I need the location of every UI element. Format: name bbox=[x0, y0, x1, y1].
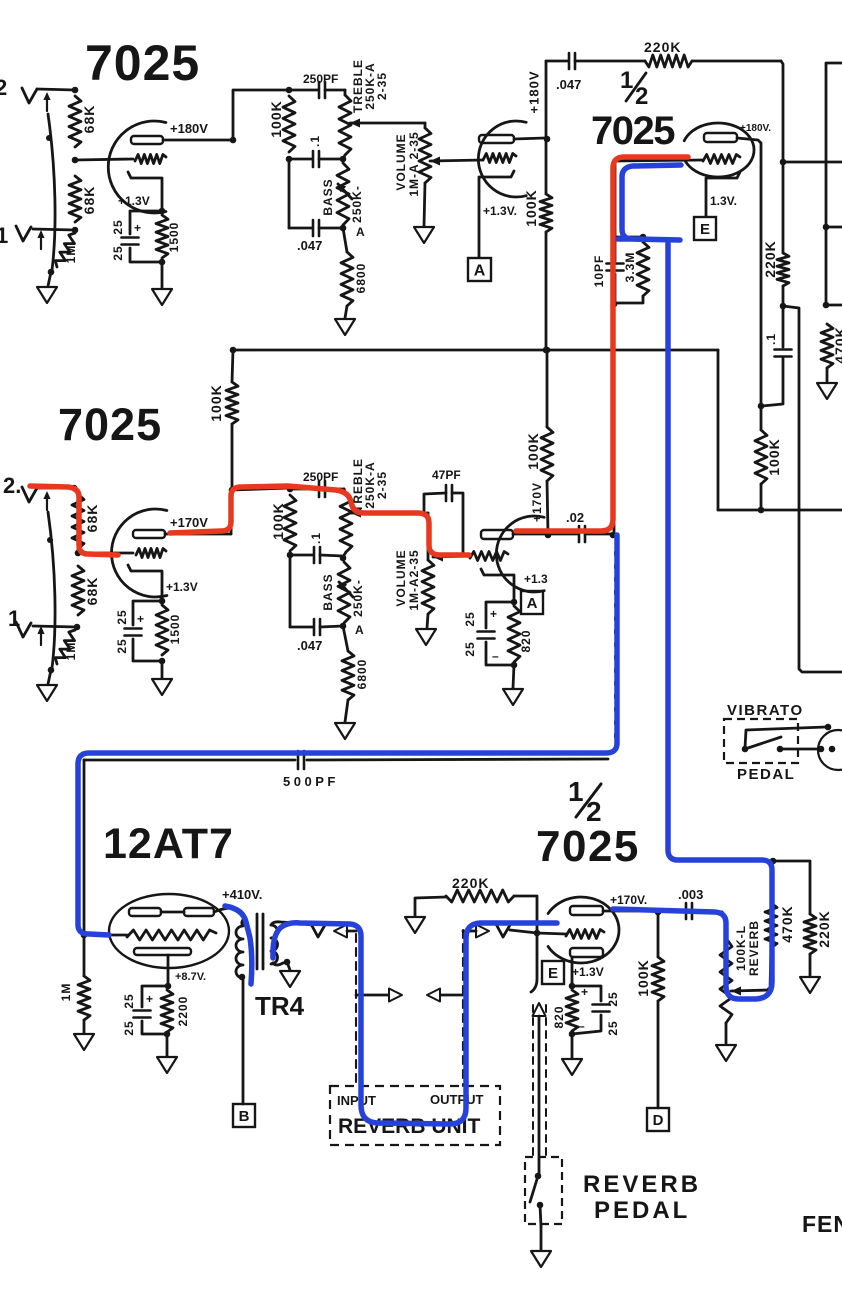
svg-text:.003: .003 bbox=[678, 887, 703, 902]
svg-text:+410V.: +410V. bbox=[222, 887, 262, 902]
ground (ch2 cathode) bbox=[152, 679, 172, 695]
resistor 68K lower (ch1) bbox=[69, 176, 97, 222]
tube V1b cathode bbox=[479, 171, 514, 257]
node ch1 grid junction bbox=[72, 157, 79, 164]
svg-text:FEN: FEN bbox=[802, 1211, 842, 1237]
wire stack feed (ch2) bbox=[232, 488, 289, 490]
wire B+ rail bbox=[233, 349, 718, 352]
terminal A box (ch1b) bbox=[468, 258, 491, 281]
wire mix out right bbox=[783, 161, 842, 164]
label input 1 bbox=[0, 223, 8, 248]
terminal B box bbox=[233, 1104, 255, 1127]
node vibrato jack top bbox=[825, 724, 832, 731]
shield arrow left bbox=[356, 989, 402, 1002]
label TR4 bbox=[255, 991, 305, 1021]
svg-text:68K: 68K bbox=[84, 577, 100, 606]
capacitor .047 (ch1) bbox=[289, 220, 341, 253]
wire stack left drop (ch2) bbox=[289, 555, 292, 627]
svg-text:820: 820 bbox=[552, 1005, 566, 1028]
svg-text:B: B bbox=[239, 1108, 250, 1125]
node ch2 stack top bbox=[287, 486, 294, 493]
label 7025 (vibrato) bbox=[591, 109, 675, 153]
wire B+ vertical (ch1b) bbox=[545, 61, 548, 194]
input jack J2 (ch1) bbox=[22, 88, 51, 111]
ground (mix load) bbox=[800, 977, 820, 993]
svg-text:25: 25 bbox=[122, 1020, 136, 1035]
blue path (reverb drive) bbox=[78, 535, 617, 935]
tube V5 cathode bbox=[570, 948, 603, 957]
transformer TR4 core bbox=[257, 914, 263, 969]
node ch2 cathode bbox=[159, 598, 166, 605]
svg-text:7025: 7025 bbox=[536, 822, 640, 871]
svg-text:220K: 220K bbox=[644, 39, 681, 55]
svg-text:+: + bbox=[581, 985, 588, 999]
input jack J1 (ch1) bbox=[16, 226, 45, 249]
ground (reverb pedal) bbox=[531, 1251, 551, 1267]
svg-text:100K: 100K bbox=[766, 438, 782, 475]
svg-text:100K: 100K bbox=[523, 189, 539, 226]
label 100K-L REVERB bbox=[734, 920, 761, 976]
reverb pedal dashed box bbox=[525, 1157, 562, 1224]
node .02 output bbox=[610, 532, 617, 539]
resistor 1M (ch1) bbox=[55, 233, 78, 267]
wire 12AT7 grid bbox=[84, 934, 127, 937]
jack circle (vibrato) bbox=[818, 730, 842, 770]
capacitor 250PF (ch1 treble) bbox=[289, 72, 345, 98]
tube V3b envelope bbox=[496, 516, 544, 592]
capacitor 250PF (ch2 treble) bbox=[290, 470, 344, 497]
wire ch2 plate riser bbox=[231, 424, 232, 534]
label VIBRATO bbox=[727, 702, 804, 719]
svg-text:+: + bbox=[146, 992, 153, 1006]
ground (ch1 input) bbox=[37, 287, 57, 303]
capacitor 25/25 (ch2 cathode) bbox=[115, 601, 162, 661]
label TREBLE pot (ch2) bbox=[351, 458, 389, 512]
label +1.3V. (ch1b) bbox=[483, 204, 517, 218]
wire cathode ground (ch2) bbox=[161, 661, 164, 678]
cable core (reverb pedal) bbox=[533, 1003, 546, 1176]
svg-text:250PF: 250PF bbox=[303, 470, 338, 484]
svg-text:1500: 1500 bbox=[167, 222, 181, 253]
svg-text:A: A bbox=[356, 225, 365, 239]
wire 500PF bus bbox=[84, 759, 608, 760]
reverb unit dashed box bbox=[330, 1086, 500, 1145]
svg-text:7025: 7025 bbox=[85, 35, 200, 91]
resistor 220K (vibrato mix) bbox=[644, 39, 781, 67]
wire ch2b cathode ground bbox=[513, 665, 514, 688]
wire plate to tone feed (ch1) bbox=[233, 90, 288, 140]
svg-text:820: 820 bbox=[519, 629, 533, 652]
svg-text:D: D bbox=[653, 1112, 664, 1129]
blue path (TR4 primary) bbox=[225, 906, 252, 984]
node ch2 cathode bottom bbox=[159, 658, 166, 665]
node V5 plate bbox=[655, 909, 662, 916]
ground (12AT7 grid) bbox=[74, 1034, 94, 1050]
svg-text:1M: 1M bbox=[59, 983, 73, 1002]
switch contact vibrato bbox=[777, 746, 818, 753]
node ch2b cathode bbox=[511, 599, 518, 606]
wire jack2 to grid node bbox=[37, 89, 75, 90]
label VOLUME pot (ch1) bbox=[394, 131, 421, 196]
resistor 1500 (ch2 cathode) bbox=[156, 605, 182, 655]
node ch2b cathode bottom bbox=[511, 662, 518, 669]
label REVERB UNIT bbox=[338, 1115, 481, 1138]
svg-text:3.3M: 3.3M bbox=[623, 252, 637, 283]
wire V4 plate to TR4 bbox=[214, 908, 245, 918]
wire plate V1a bbox=[163, 139, 232, 142]
svg-text:PEDAL: PEDAL bbox=[594, 1197, 690, 1224]
svg-text:PEDAL: PEDAL bbox=[737, 766, 795, 783]
label +170V (ch2 plate) bbox=[170, 515, 208, 530]
svg-text:+170V: +170V bbox=[170, 515, 208, 530]
wire V5 cathode ground bbox=[571, 1034, 574, 1058]
node ch1b plate bbox=[544, 136, 551, 143]
svg-text:25: 25 bbox=[463, 611, 477, 626]
svg-text:250PF: 250PF bbox=[303, 72, 338, 86]
node on curve (ch2) bbox=[47, 537, 53, 543]
wire jack2 to node (ch2) bbox=[37, 487, 73, 490]
label +1.3 (ch2b) bbox=[524, 572, 548, 586]
wiper BASS (ch1) bbox=[337, 183, 352, 199]
node ch2 mid row left bbox=[287, 552, 294, 559]
svg-text:12AT7: 12AT7 bbox=[103, 820, 234, 868]
node lower bus left bbox=[758, 507, 765, 514]
tube V3a grid squiggle bbox=[136, 549, 166, 558]
red signal path (ch2 plate to grid2) bbox=[170, 486, 469, 555]
terminal A box (ch2b) bbox=[521, 591, 543, 614]
label +1.3V (ch1) bbox=[118, 194, 150, 208]
wire right edge out2 bbox=[826, 304, 842, 307]
tube V2b plate bbox=[704, 133, 737, 142]
resistor 6800 (ch1) bbox=[341, 228, 368, 318]
svg-text:2.: 2. bbox=[3, 473, 21, 498]
svg-text:68K: 68K bbox=[84, 504, 100, 533]
svg-text:+1.3V: +1.3V bbox=[166, 580, 198, 594]
wiper TREBLE (ch2) bbox=[351, 509, 428, 518]
wire TR4 to B bbox=[242, 977, 245, 1104]
label 1.3V. (vibrato) bbox=[710, 194, 737, 208]
node ch2 mid row right bbox=[340, 555, 347, 562]
svg-text:2200: 2200 bbox=[176, 996, 190, 1027]
svg-text:100K: 100K bbox=[208, 384, 224, 421]
tube V3a envelope bbox=[112, 509, 167, 597]
svg-text:.1: .1 bbox=[309, 532, 323, 544]
wire sleeve curve (ch1) bbox=[48, 114, 55, 270]
tube V4 grid squiggle bbox=[127, 930, 216, 940]
capacitor .003 bbox=[658, 887, 722, 919]
svg-text:–: – bbox=[578, 1019, 585, 1033]
wire plate V3b bbox=[513, 533, 547, 536]
svg-text:100K: 100K bbox=[635, 959, 651, 996]
ground (ch1 6800) bbox=[335, 319, 355, 335]
node rail at x547 bbox=[544, 347, 551, 354]
svg-text:100K: 100K bbox=[268, 100, 284, 137]
svg-text:220K: 220K bbox=[816, 910, 832, 947]
wiper TREBLE (ch1) bbox=[350, 119, 425, 128]
plug arrow (reverb in) bbox=[334, 925, 356, 938]
svg-text:OUTPUT: OUTPUT bbox=[430, 1092, 484, 1107]
vibrato pedal dashed box bbox=[724, 719, 798, 763]
svg-text:1.3V.: 1.3V. bbox=[710, 194, 737, 208]
tube V4 plate left bbox=[129, 908, 161, 916]
node ch1 cathode bbox=[159, 208, 166, 215]
node rail at x546 bbox=[543, 347, 550, 354]
wire plate V1b bbox=[514, 138, 545, 139]
capacitor .047 (ch2) bbox=[290, 619, 343, 653]
potentiometer VOLUME 1M-A (ch2) bbox=[422, 513, 434, 628]
potentiometer TREBLE 250K-A (ch2) bbox=[340, 489, 352, 557]
label +180V. (vibrato plate) bbox=[740, 123, 771, 134]
node ch1 jack2 bbox=[72, 87, 79, 94]
capacitor 10PF bbox=[592, 237, 624, 303]
cable dashed (reverb pedal) left bbox=[532, 1005, 534, 1157]
svg-text:.1: .1 bbox=[764, 333, 778, 345]
node TR4 primary bottom bbox=[239, 974, 246, 981]
tube V3b grid squiggle bbox=[470, 552, 508, 561]
label PEDAL (reverb) bbox=[594, 1197, 690, 1224]
capacitor .02 (coupling) bbox=[548, 510, 612, 542]
transformer TR4 primary bbox=[236, 918, 245, 978]
terminal E box (vibrato) bbox=[694, 217, 716, 240]
resistor 68K upper (ch2) bbox=[72, 494, 100, 549]
tube V5 plate bbox=[570, 906, 603, 915]
blue path (vibrato grid loop) bbox=[618, 165, 681, 240]
label input 2 bbox=[0, 75, 7, 100]
ground (ch2 volume) bbox=[416, 629, 436, 645]
label input 2 (ch2) bbox=[3, 473, 21, 498]
blue path (vibrato down to mix) bbox=[613, 240, 772, 999]
node ch1 input ground bbox=[48, 269, 55, 276]
svg-text:6800: 6800 bbox=[354, 263, 368, 294]
svg-text:BASS: BASS bbox=[321, 573, 335, 610]
svg-text:INPUT: INPUT bbox=[337, 1093, 376, 1108]
node 12AT7 grid bbox=[81, 932, 88, 939]
cable dashed (reverb pedal) right bbox=[545, 1005, 547, 1157]
transformer TR4 secondary bbox=[271, 925, 278, 964]
tube V4 12AT7 envelope bbox=[109, 894, 229, 968]
resistor 100K (ch1b plate load) bbox=[523, 189, 552, 232]
svg-text:25: 25 bbox=[606, 991, 620, 1006]
node ch2b plate bbox=[545, 532, 552, 539]
resistor 3.3M bbox=[614, 242, 649, 303]
svg-text:REVERB: REVERB bbox=[583, 1171, 701, 1198]
resistor 100K (ch2 slope) bbox=[270, 495, 296, 551]
wire cathode to ground (ch1) bbox=[161, 262, 164, 288]
capacitor 25/25 (ch1 cathode) bbox=[111, 211, 162, 262]
node ch1 plate bbox=[230, 137, 237, 144]
tube V1a 7025 envelope bbox=[108, 121, 166, 213]
potentiometer BASS 250K-A (ch2) bbox=[321, 562, 365, 637]
node right edge lower bbox=[823, 302, 830, 309]
capacitor 500PF bbox=[283, 751, 339, 789]
svg-text:100K-L: 100K-L bbox=[734, 925, 748, 971]
svg-text:VIBRATO: VIBRATO bbox=[727, 702, 804, 719]
node ch1 bass bottom bbox=[340, 225, 347, 232]
resistor 220K (right column) bbox=[762, 162, 789, 306]
svg-text:25: 25 bbox=[111, 219, 125, 234]
svg-text:100K: 100K bbox=[525, 432, 541, 469]
svg-text:6800: 6800 bbox=[355, 659, 369, 690]
node mix right bbox=[780, 159, 787, 166]
cable dashed right bbox=[462, 930, 464, 1086]
node rail at x233 bbox=[230, 347, 237, 354]
resistor 100K (right) bbox=[755, 406, 782, 510]
tube V1b grid squiggle bbox=[483, 154, 516, 163]
svg-text:2-35: 2-35 bbox=[375, 471, 389, 499]
svg-text:470K: 470K bbox=[832, 326, 842, 363]
label +8.7V. bbox=[175, 971, 206, 983]
wire grid (ch1) bbox=[75, 159, 133, 160]
label +170V. (recovery) bbox=[610, 893, 647, 907]
label OUTPUT bbox=[430, 1092, 484, 1107]
tube V5 envelope bbox=[548, 897, 619, 963]
tube V3a plate bbox=[133, 530, 165, 538]
tube V2b envelope bbox=[684, 123, 754, 177]
wiper VOLUME (ch2) bbox=[433, 553, 469, 562]
svg-text:47PF: 47PF bbox=[432, 468, 461, 482]
wire right edge out1 bbox=[826, 226, 842, 229]
wiper BASS (ch2) bbox=[338, 581, 353, 597]
ground (ch2 input) bbox=[37, 685, 57, 701]
resistor 6800 (ch2) bbox=[342, 626, 369, 722]
svg-text:E: E bbox=[700, 221, 710, 238]
svg-text:25: 25 bbox=[463, 641, 477, 656]
svg-text:68K: 68K bbox=[81, 186, 97, 215]
label +180V rotated bbox=[527, 71, 542, 114]
wire V4 cathode ground bbox=[166, 1034, 169, 1056]
svg-text:1: 1 bbox=[568, 776, 584, 807]
terminal E box (recovery) bbox=[542, 961, 564, 984]
wire jack to grid bbox=[510, 930, 537, 933]
tube V3b cathode bbox=[481, 569, 514, 601]
node mix wiper bbox=[767, 987, 774, 994]
svg-text:25: 25 bbox=[606, 1020, 620, 1035]
label FENDER (cut) bbox=[802, 1211, 842, 1237]
potentiometer VOLUME 1M-A (ch1) bbox=[419, 128, 431, 226]
capacitor 47PF (ch2 bright) bbox=[424, 468, 463, 553]
tube V4 cathode bbox=[134, 948, 191, 955]
svg-text:1M: 1M bbox=[64, 642, 78, 661]
resistor 1500 (ch1 cathode) bbox=[156, 215, 181, 258]
node recovery grid bbox=[534, 930, 541, 937]
svg-text:+: + bbox=[137, 612, 144, 626]
wire V4 cathode drop bbox=[167, 955, 170, 986]
svg-text:1M: 1M bbox=[64, 245, 78, 264]
capacitor .047 (vibrato coupling) bbox=[546, 53, 645, 92]
svg-text:470K: 470K bbox=[779, 905, 795, 942]
tube V1b 7025 envelope bbox=[478, 121, 526, 197]
svg-text:2: 2 bbox=[0, 75, 7, 100]
resistor 470K (vibrato mix) bbox=[765, 862, 795, 990]
ground (right edge) bbox=[817, 383, 837, 399]
node ch2 jack1 bbox=[74, 624, 81, 631]
label +170V (ch2b) bbox=[530, 482, 544, 522]
wire rail corner down bbox=[717, 350, 720, 510]
wire V5 cathode drop bbox=[571, 957, 574, 986]
capacitor 25/25 (ch2b cathode) bbox=[463, 602, 514, 665]
label TREBLE pot (ch1) bbox=[351, 59, 389, 113]
label 12AT7 bbox=[103, 820, 234, 868]
svg-text:.047: .047 bbox=[297, 238, 322, 253]
svg-text:+170V: +170V bbox=[530, 482, 544, 522]
capacitor .1 (ch2 bass) bbox=[290, 532, 343, 563]
svg-text:2: 2 bbox=[635, 83, 648, 110]
tube V4 plate right bbox=[184, 908, 214, 916]
wire secondary gnd bbox=[287, 962, 290, 970]
svg-text:+1.3V.: +1.3V. bbox=[483, 204, 517, 218]
svg-text:68K: 68K bbox=[81, 105, 97, 134]
svg-text:+: + bbox=[490, 607, 497, 621]
ground (reverb pot) bbox=[716, 1045, 736, 1061]
ground (V4 cathode) bbox=[157, 1057, 177, 1073]
svg-text:.02: .02 bbox=[566, 510, 584, 525]
svg-text:VOLUME: VOLUME bbox=[394, 549, 408, 606]
wire pedal ground bbox=[540, 1226, 543, 1250]
capacitor 25/25 (V4 cathode) bbox=[122, 986, 168, 1036]
tube V1b plate bbox=[479, 135, 514, 143]
node on curve (ch1) bbox=[46, 135, 52, 141]
svg-text:REVERB UNIT: REVERB UNIT bbox=[338, 1115, 481, 1138]
wire plate V3a bbox=[165, 533, 231, 536]
potentiometer BASS 250K-A (ch1) bbox=[321, 163, 365, 239]
tube V1a grid squiggle bbox=[135, 155, 166, 164]
cable dashed left bbox=[355, 934, 357, 1086]
svg-text:25: 25 bbox=[122, 993, 136, 1008]
tube V5 grid squiggle bbox=[537, 930, 604, 939]
wire dashed (under blue) bbox=[614, 552, 616, 742]
tube V3a cathode bbox=[128, 565, 162, 601]
jack chevron (recovery in) bbox=[496, 924, 510, 937]
resistor 820 (ch2b cathode) bbox=[508, 606, 533, 662]
label +180V (ch1 plate) bbox=[170, 121, 208, 136]
resistor 100K (ch2b plate load) bbox=[525, 350, 553, 534]
label +410V. bbox=[222, 887, 262, 902]
resistor 100K (to D) bbox=[635, 912, 664, 1108]
tube V2b cathode bbox=[706, 172, 740, 216]
svg-text:BASS: BASS bbox=[321, 178, 335, 215]
node ch2 grid junction bbox=[75, 550, 82, 557]
wire down right x783 bbox=[781, 61, 783, 162]
node 10PF bottom bbox=[611, 301, 618, 308]
label +1.3V (ch2) bbox=[166, 580, 198, 594]
shield arrow right bbox=[427, 989, 463, 1002]
resistor 100K (ch1 slope) bbox=[268, 96, 295, 152]
node right edge upper bbox=[823, 224, 830, 231]
node ch2 bass bottom bbox=[340, 623, 347, 630]
svg-text:+8.7V.: +8.7V. bbox=[175, 971, 206, 983]
wiper VOLUME (ch1) bbox=[430, 157, 483, 166]
wire to dropper column bbox=[783, 306, 842, 672]
node ch2 jack2 bbox=[71, 485, 78, 492]
svg-text:2-35: 2-35 bbox=[375, 72, 389, 100]
svg-text:+1.3V: +1.3V bbox=[118, 194, 150, 208]
switch vibrato pedal bbox=[742, 727, 826, 752]
capacitor 25/25 (V5 cathode) bbox=[572, 985, 620, 1036]
wire grid (ch2) bbox=[78, 552, 133, 555]
wire reverb drive drop bbox=[83, 760, 86, 935]
svg-text:7025: 7025 bbox=[591, 109, 675, 153]
svg-text:+: + bbox=[134, 221, 141, 235]
resistor 470K (right edge) bbox=[821, 324, 842, 382]
node V4 cathode bottom bbox=[164, 1031, 171, 1038]
ground (V5 cathode) bbox=[562, 1059, 582, 1075]
svg-text:500PF: 500PF bbox=[283, 774, 339, 789]
resistor 1M (12AT7 grid) bbox=[59, 935, 90, 1033]
ground (ch1 cathode) bbox=[152, 289, 172, 305]
svg-text:1M-A2-35: 1M-A2-35 bbox=[407, 549, 421, 610]
svg-text:A: A bbox=[355, 623, 364, 637]
node ch1 cathode bottom bbox=[159, 259, 166, 266]
